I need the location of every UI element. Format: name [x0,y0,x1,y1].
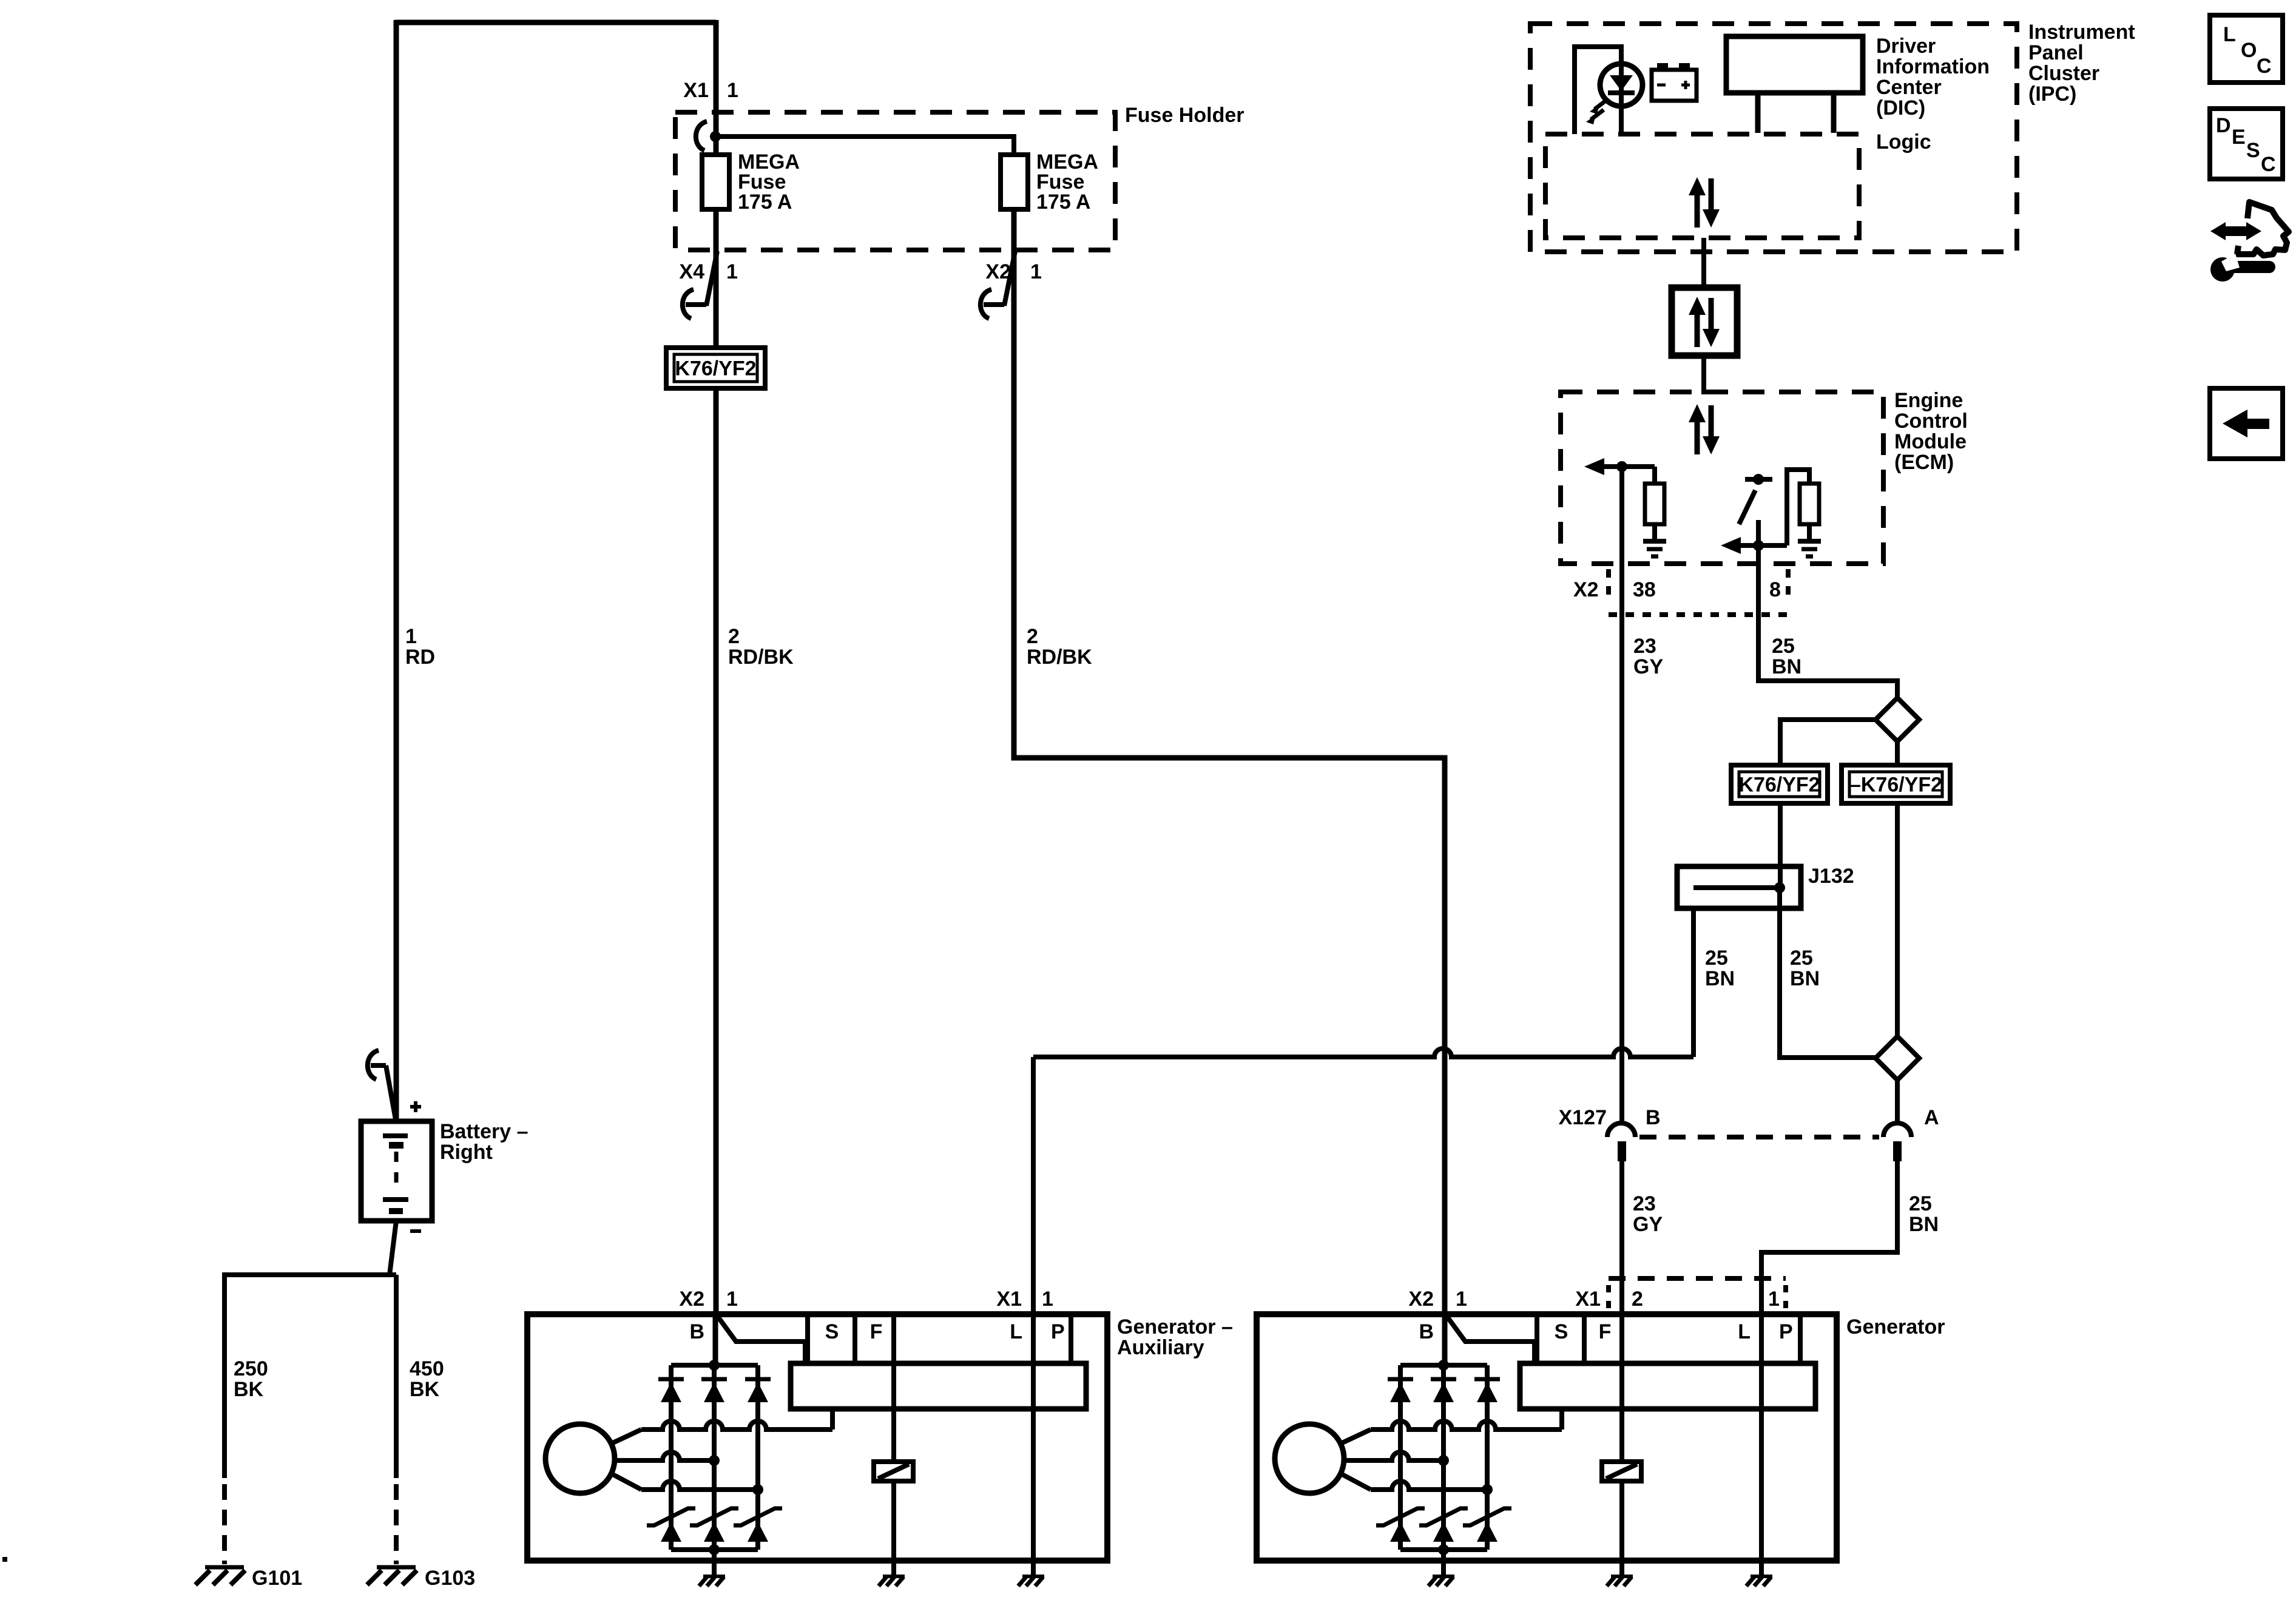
svg-text:Generator: Generator [1846,1315,1945,1338]
generator stator phase 2 [1346,1452,1443,1460]
svg-text:Center: Center [1876,76,1942,99]
svg-text:Generator –: Generator – [1117,1315,1233,1338]
generator - auxiliary ground wire B column [712,1550,717,1576]
generator - auxiliary rectifier top rail [671,1363,758,1368]
svg-text:L: L [2223,23,2236,46]
generator - auxiliary stator phase 1 [613,1430,641,1443]
svg-text:23: 23 [1633,635,1656,658]
generator - auxiliary rotor [545,1424,615,1493]
generator B pin jumper to regulator [1447,1317,1535,1363]
svg-text:(IPC): (IPC) [2028,83,2076,106]
svg-text:X1: X1 [1575,1288,1601,1311]
svg-text:X2: X2 [679,1288,704,1311]
svg-text:1: 1 [726,1288,738,1311]
svg-text:Driver: Driver [1876,35,1936,58]
generator - auxiliary B pin jumper to regulator [718,1317,805,1363]
generator stator phase 1 [1342,1430,1371,1443]
svg-text:1: 1 [726,260,738,283]
wire K76/YF2 to J132 [1778,803,1783,888]
connector X127 dashed link [1639,1135,1879,1139]
svg-text:BN: BN [1790,967,1820,990]
svg-text:X4: X4 [679,260,704,283]
svg-text:L: L [1010,1320,1022,1343]
DIC logic box [1545,134,1859,238]
svg-text:1: 1 [1768,1288,1780,1311]
DIC display box [1726,36,1863,93]
svg-text:B: B [1646,1106,1661,1129]
indicator lamp LED [1600,64,1643,106]
ECM resistor R2 [1800,484,1819,524]
svg-text:C: C [2257,55,2272,78]
wire fuse2 to generator B [1014,209,1445,1317]
battery symbol icon (DIC) [1652,70,1697,101]
svg-text:Fuse Holder: Fuse Holder [1125,104,1244,127]
wire fuse1 to K76/YF2 [714,209,719,350]
connector X127 socket B [1607,1123,1635,1137]
connector X1 terminal [696,121,707,150]
wire diamond1 to -K76/YF2 [1895,741,1900,765]
svg-text:Control: Control [1894,410,1968,433]
svg-text:S: S [2246,139,2260,162]
svg-text:25: 25 [1909,1192,1932,1215]
ECM resistor R1 [1645,484,1664,524]
svg-text:BN: BN [1705,967,1735,990]
svg-text:P: P [1779,1320,1793,1343]
generator - auxiliary field wire [891,1314,896,1462]
svg-text:G103: G103 [425,1567,475,1590]
generator regulator box [1520,1363,1815,1409]
serial data wire lower [1701,356,1706,394]
relay label box K76/YF2 [1731,765,1828,803]
svg-text:Cluster: Cluster [2028,62,2099,85]
generator - auxiliary pin slot dividers [805,1314,810,1363]
svg-text:Information: Information [1876,55,1990,78]
svg-text:X127: X127 [1559,1106,1607,1129]
svg-text:450: 450 [410,1357,444,1380]
svg-text:1: 1 [727,79,738,102]
svg-text:Module: Module [1894,430,1967,453]
connector X127 socket A [1883,1123,1911,1137]
ground G103 [377,1565,416,1570]
fuse F1 MEGA 175 A [702,155,729,209]
generator - auxiliary box [527,1314,1107,1561]
svg-text:GY: GY [1633,655,1663,678]
icon DESC box [2210,109,2283,179]
svg-text:J132: J132 [1808,865,1854,888]
page artifact dot [2,1557,7,1562]
svg-text:Instrument: Instrument [2028,21,2135,44]
wire 25 BN from ECM pin 8 [1758,545,1897,698]
wire 23 GY from ECM pin 38 [1619,467,1624,1123]
battery positive connector terminal [368,1050,379,1079]
svg-text:K76/YF2: K76/YF2 [675,357,756,380]
svg-text:BK: BK [410,1378,440,1401]
svg-text:E: E [2232,126,2246,149]
svg-text:S: S [825,1320,839,1343]
icon connector service: wrench [2210,257,2235,282]
generator stator phase 3 [1342,1474,1371,1490]
svg-text:38: 38 [1633,578,1656,601]
svg-text:1: 1 [1030,260,1042,283]
wire diamond2 to X127 A [1895,1080,1900,1123]
generator - auxiliary rectifier bottom rail [671,1547,758,1552]
svg-text:D: D [2216,114,2231,137]
svg-text:(DIC): (DIC) [1876,96,1925,120]
generator top diodes [1388,1377,1413,1382]
generator - auxiliary top diodes [658,1377,684,1382]
svg-text:RD/BK: RD/BK [1027,646,1092,669]
wire ground bus horizontal [222,1272,396,1277]
svg-text:175 A: 175 A [1036,191,1090,214]
generator - auxiliary ground L column [1022,1575,1044,1578]
serial data gateway box [1672,288,1737,356]
connector X4 terminal [706,251,717,306]
icon connector service: connector outline [2237,202,2289,255]
wire branch to fuse 2 [715,137,1014,157]
svg-text:F: F [1599,1320,1612,1343]
generator B wire into bridge [1442,1314,1448,1365]
svg-text:23: 23 [1633,1192,1656,1215]
svg-text:S: S [1555,1320,1568,1343]
ECM serial data arrows [1695,420,1700,454]
svg-text:K76/YF2: K76/YF2 [1738,774,1820,797]
relay label box K76/YF2 (feed) [666,348,765,388]
svg-text:250: 250 [234,1357,268,1380]
indicator branch wires [1575,47,1621,134]
generator box [1257,1314,1837,1561]
generator ground L column [1751,1575,1772,1578]
svg-text:2: 2 [728,625,740,648]
wire J132 internal [1693,885,1780,890]
generator rotor [1275,1424,1344,1493]
wire J132 to splice diamond 2 [1780,888,1876,1058]
generator connector X1 dashed outline [1609,1276,1786,1281]
svg-text:(ECM): (ECM) [1894,451,1954,474]
wire diamond1 to K76/YF2 relay [1780,720,1876,765]
ECM connector X2 dotted box [1606,569,1611,602]
svg-text:–K76/YF2: –K76/YF2 [1849,774,1942,797]
svg-text:Logic: Logic [1876,130,1931,154]
wire battery positive vertical [394,20,399,1121]
wire fuse feed vertical [714,20,719,157]
svg-text:1: 1 [1042,1288,1053,1311]
wire K76/YF2 to generator-auxiliary B [714,388,719,1317]
generator - auxiliary lamp wire L column [1031,1314,1036,1576]
svg-text:O: O [2241,39,2257,62]
svg-text:X1: X1 [996,1288,1022,1311]
svg-text:BN: BN [1909,1213,1939,1236]
generator field wire [1619,1314,1624,1462]
svg-text:RD/BK: RD/BK [728,646,794,669]
generator ground wire B column [1441,1550,1446,1576]
wire -K76/YF2 to diamond 2 [1895,803,1900,1036]
svg-text:25: 25 [1790,947,1813,970]
ECM sense branch wire [1602,464,1655,469]
svg-text:1: 1 [405,625,417,648]
relay label box -K76/YF2 [1842,765,1950,803]
wire 23 GY to generator F [1619,1161,1624,1317]
wire generator-aux L to J132 left leg [1031,1057,1036,1317]
splice diamond 1 [1876,698,1919,741]
svg-text:1: 1 [1456,1288,1467,1311]
svg-text:A: A [1924,1106,1939,1129]
icon connector service: double arrow [2222,226,2250,236]
svg-text:X2: X2 [1408,1288,1434,1311]
icon LOC box [2210,15,2283,83]
splice J132 box [1677,866,1801,908]
battery minus sign [410,1229,421,1233]
svg-text:Battery –: Battery – [440,1120,528,1143]
svg-text:L: L [1738,1320,1751,1343]
svg-text:Engine: Engine [1894,389,1963,412]
generator - auxiliary B wire into bridge [713,1314,718,1365]
svg-text:8: 8 [1769,578,1781,601]
wire battery positive top horizontal [395,20,716,25]
svg-text:X1: X1 [683,79,709,102]
generator - auxiliary stator phase 2 [617,1452,714,1460]
svg-text:175 A: 175 A [738,191,792,214]
generator bottom zener diodes [1376,1508,1425,1525]
svg-text:X2: X2 [1573,578,1599,601]
svg-text:2: 2 [1632,1288,1643,1311]
generator - auxiliary stator phase 3 [613,1474,641,1490]
wire to G101 [222,1272,227,1478]
serial data wire upper [1701,238,1706,288]
svg-text:2: 2 [1027,625,1038,648]
svg-text:25: 25 [1705,947,1728,970]
svg-text:Right: Right [440,1141,493,1164]
wire 25 BN to generator L [1761,1161,1897,1317]
splice diamond 2 [1876,1036,1919,1080]
battery plates [383,1133,408,1138]
svg-text:BK: BK [234,1378,264,1401]
svg-text:B: B [1419,1320,1434,1343]
fuse holder box [675,112,1115,250]
logic serial data arrows [1695,194,1700,228]
fuse F2 MEGA 175 A [1001,155,1028,209]
svg-text:Auxiliary: Auxiliary [1117,1336,1204,1359]
generator pin slot dividers [1535,1314,1539,1363]
svg-text:G101: G101 [252,1567,302,1590]
generator bridge columns [1398,1365,1403,1550]
generator - auxiliary ground field column [883,1575,905,1578]
generator - auxiliary field regulator element [874,1462,913,1481]
generator rectifier top rail [1400,1363,1487,1368]
serial data gateway arrows [1695,313,1700,347]
wire to G103 [394,1275,399,1478]
icon back arrow box [2210,388,2283,459]
ECM switch branch [1745,477,1772,482]
ECM internal ground 2 [1798,539,1821,544]
svg-text:BN: BN [1772,655,1801,678]
svg-text:F: F [870,1320,883,1343]
svg-text:C: C [2261,153,2276,176]
generator ground field column [1611,1575,1633,1578]
generator rectifier bottom rail [1400,1547,1487,1552]
ground G101 [205,1565,244,1570]
svg-text:25: 25 [1772,635,1795,658]
instrument panel cluster box [1530,24,2017,252]
indicator light arrows [1595,100,1607,109]
generator - auxiliary bottom zener diodes [647,1508,695,1525]
svg-text:Panel: Panel [2028,41,2084,64]
generator - auxiliary bridge columns [669,1365,674,1550]
wire battery negative jog [390,1221,396,1275]
battery B1 box [361,1121,432,1221]
svg-text:P: P [1051,1320,1065,1343]
generator field regulator element [1602,1462,1641,1481]
svg-text:B: B [689,1320,704,1343]
engine control module box [1561,392,1883,564]
svg-text:GY: GY [1633,1213,1663,1236]
DIC display legs [1755,93,1761,133]
ECM internal ground 1 [1643,539,1666,544]
generator lamp wire L column [1759,1314,1764,1576]
generator - auxiliary regulator box [791,1363,1086,1409]
battery plus sign [410,1105,421,1109]
svg-text:RD: RD [405,646,435,669]
connector X2 terminal [1004,251,1015,306]
